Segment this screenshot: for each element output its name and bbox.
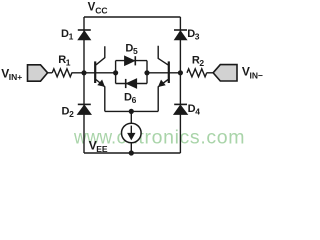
wire left input stub bbox=[48, 72, 53, 74]
node dot emitter junction bbox=[129, 109, 134, 114]
wire base through-line left bbox=[72, 72, 116, 74]
svg-text:6: 6 bbox=[132, 95, 137, 105]
wire current source top stem bbox=[130, 111, 132, 123]
diode D4 bbox=[174, 104, 187, 114]
svg-text:4: 4 bbox=[195, 107, 200, 117]
wire left vertical D1/D2 branch bbox=[83, 17, 85, 153]
label D2 bbox=[62, 106, 75, 120]
wire VCC top rail bbox=[84, 16, 180, 18]
label VIN+ bbox=[1, 67, 22, 83]
svg-text:3: 3 bbox=[195, 32, 200, 42]
input connector VIN+ bbox=[28, 65, 48, 81]
D5/D6 box bbox=[116, 61, 147, 84]
svg-text:IN+: IN+ bbox=[9, 72, 22, 82]
wire current source bottom stem bbox=[130, 143, 132, 153]
diode D3 bbox=[174, 30, 187, 40]
current source I1 bbox=[122, 123, 142, 143]
svg-text:5: 5 bbox=[133, 46, 138, 56]
svg-text:1: 1 bbox=[69, 31, 74, 41]
node dot VEE junction bbox=[129, 150, 134, 155]
label VCC bbox=[88, 2, 108, 16]
diode D2 bbox=[78, 104, 91, 114]
wire base through-line right bbox=[147, 72, 180, 74]
wire right vertical D3/D4 branch bbox=[179, 17, 181, 153]
diode D5 bbox=[125, 56, 136, 65]
node dot left input bbox=[81, 70, 86, 75]
diode D6 bbox=[126, 79, 137, 88]
svg-text:2: 2 bbox=[199, 58, 204, 68]
label D1 bbox=[61, 28, 74, 42]
label VIN- bbox=[242, 64, 263, 80]
svg-text:IN−: IN− bbox=[250, 70, 264, 80]
resistor R1 bbox=[52, 69, 72, 77]
label D6 bbox=[124, 92, 137, 106]
resistor R2 bbox=[187, 69, 207, 77]
label R1 bbox=[58, 54, 70, 68]
svg-text:1: 1 bbox=[66, 57, 71, 67]
label R2 bbox=[192, 55, 205, 69]
diode D1 bbox=[78, 30, 91, 40]
node dot right input bbox=[178, 70, 183, 75]
svg-text:CC: CC bbox=[95, 5, 107, 15]
node dot D5/D6 left bbox=[113, 70, 118, 75]
label D5 bbox=[125, 42, 138, 56]
svg-text:2: 2 bbox=[69, 109, 74, 119]
input connector VIN- bbox=[213, 65, 237, 81]
node dot D5/D6 right bbox=[144, 70, 149, 75]
label D4 bbox=[188, 103, 201, 117]
wire common emitter line bbox=[105, 110, 158, 112]
transistor Q2 (right) bbox=[158, 46, 169, 112]
wire right input stub bbox=[207, 72, 214, 74]
label D3 bbox=[187, 28, 200, 42]
svg-text:EE: EE bbox=[96, 144, 108, 154]
wire VEE bottom rail bbox=[84, 152, 180, 154]
label VEE bbox=[89, 139, 108, 155]
transistor Q1 (left) bbox=[95, 46, 105, 111]
